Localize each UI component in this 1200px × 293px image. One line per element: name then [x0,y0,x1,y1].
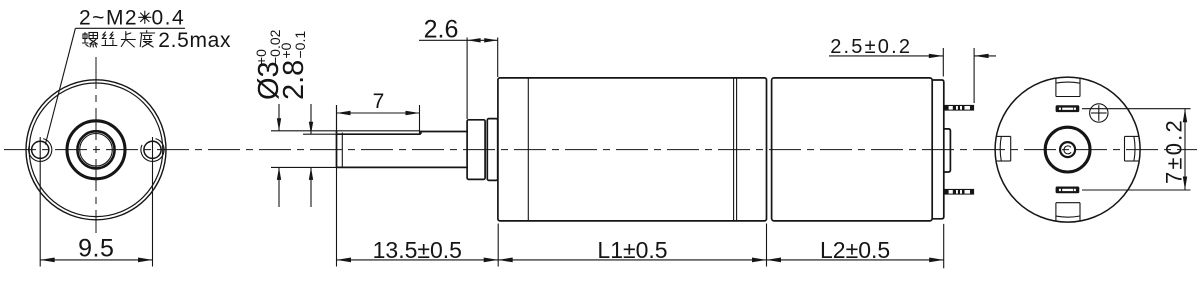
svg-text:0.4: 0.4 [152,6,186,29]
svg-text:2~M2: 2~M2 [79,6,138,29]
svg-text:2.5max: 2.5max [158,29,231,52]
svg-text:13.5±0.5: 13.5±0.5 [373,237,462,263]
svg-text:L2±0.5: L2±0.5 [820,237,890,263]
svg-text:2.8: 2.8 [278,60,310,100]
svg-text:9.5: 9.5 [78,235,114,263]
svg-text:−0.1: −0.1 [292,31,308,59]
svg-text:2.6: 2.6 [424,16,459,44]
svg-text:L1±0.5: L1±0.5 [597,237,667,263]
svg-text:7: 7 [373,90,385,113]
svg-text:2.5±0.2: 2.5±0.2 [830,36,912,58]
svg-text:7±0.2: 7±0.2 [1162,118,1187,184]
